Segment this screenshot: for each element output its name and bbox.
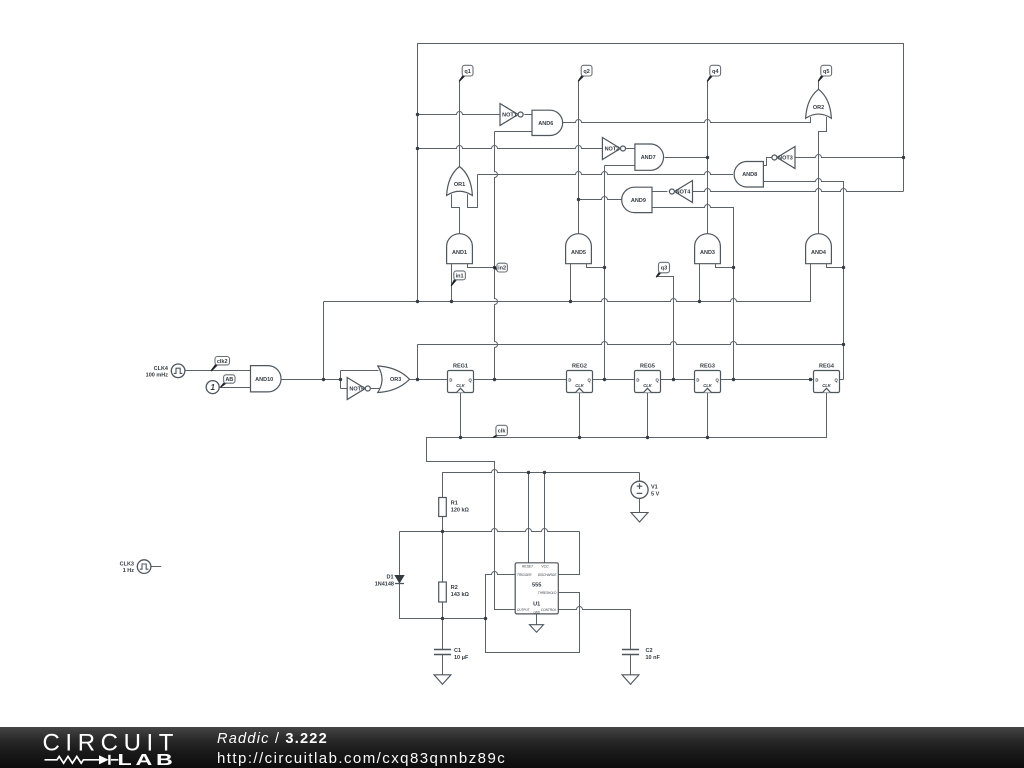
svg-text:1N4148: 1N4148 [375, 581, 394, 587]
capacitor C2 [622, 648, 661, 661]
svg-text:AND4: AND4 [811, 250, 827, 256]
svg-text:R1: R1 [451, 500, 458, 506]
junction [603, 266, 606, 269]
svg-text:TRIGGER: TRIGGER [517, 573, 532, 577]
wire: AND6 lower input horizontal [495, 131, 533, 133]
svg-text:OR1: OR1 [454, 182, 465, 188]
gate AND4 [806, 234, 832, 264]
label AB [221, 375, 235, 387]
wire: R2 down to C1 [442, 602, 444, 650]
svg-text:AND8: AND8 [742, 172, 757, 178]
junction [732, 266, 735, 269]
svg-text:NOT2: NOT2 [605, 147, 620, 153]
junction [842, 266, 845, 269]
wire: NOT2 input [418, 146, 603, 149]
junction [493, 266, 496, 269]
label q4 [708, 65, 721, 81]
gate NOT4 [675, 181, 693, 203]
wire: TRIGGER loop to THRESHOLD [486, 572, 580, 653]
wire: q2 net riser [604, 166, 606, 380]
flip-flop REG5 [635, 363, 661, 392]
svg-text:AND9: AND9 [631, 198, 646, 204]
gate NOT2 [602, 138, 620, 160]
junction [527, 471, 530, 474]
junction [646, 436, 649, 439]
svg-text:q2: q2 [583, 69, 589, 75]
gate AND1 [447, 234, 473, 264]
ground [622, 675, 639, 685]
gate OR3 [378, 366, 410, 393]
svg-text:THRESHOLD: THRESHOLD [538, 591, 557, 595]
wire: AND3 left input riser [699, 264, 701, 302]
svg-text:OR2: OR2 [813, 105, 824, 111]
wire: AND9 lower input to REG3 Q riser [652, 205, 734, 380]
wire: NOT2 bubble to AND7 input [626, 148, 635, 150]
svg-text:in2: in2 [498, 266, 506, 272]
gate NOT5 [347, 378, 365, 400]
wire: RESET riser [528, 473, 530, 563]
svg-text:in1: in1 [456, 274, 464, 280]
gate AND9 [622, 187, 652, 212]
ground [530, 625, 544, 633]
ground [631, 513, 648, 523]
flip-flop REG3 [695, 363, 721, 392]
gate OR2 [806, 89, 832, 118]
wire: CLK4 to AND10 upper input [185, 370, 251, 372]
ground [434, 675, 451, 685]
clock source CLK3 [120, 560, 151, 574]
flip-flop REG2 [567, 363, 593, 392]
wire: D1 bottom to trigger/threshold sense wire [400, 584, 486, 619]
junction [339, 378, 342, 381]
svg-text:OR3: OR3 [390, 377, 401, 383]
junction [484, 617, 487, 620]
svg-text:100 mHz: 100 mHz [146, 373, 169, 379]
clock source CLK4 [146, 364, 185, 379]
wire: AND5 right input jog [587, 264, 605, 268]
wire: REG1 Q to REG2 D [474, 379, 567, 381]
wire: REG3 Q to REG4 D [721, 379, 814, 381]
wire: OR1 right input jog up to AND8 output rail [468, 175, 478, 208]
wire: NOT4 input from right edge [693, 189, 904, 192]
resistor R1 [439, 498, 470, 517]
wire: OR2 right input to AND4 output riser [819, 117, 827, 236]
svg-text:10 nF: 10 nF [646, 655, 661, 661]
junction [416, 300, 419, 303]
junction [416, 113, 419, 116]
label q1 [460, 65, 474, 81]
wire: NOT5/OR3 branch vertical [340, 371, 342, 389]
wire: AND7 output to q4 riser [665, 157, 708, 159]
svg-text:clk: clk [498, 429, 507, 435]
svg-text:NOT1: NOT1 [502, 113, 517, 119]
junction [441, 617, 444, 620]
svg-text:OUTPUT: OUTPUT [517, 608, 530, 612]
wire: q4 label riser down to AND3 tip [707, 81, 709, 234]
junction [603, 378, 606, 381]
wire: rail2 (R1/R2 junction, D1, discharge) [400, 529, 580, 532]
svg-text:q3: q3 [661, 266, 667, 272]
wire: branch to NOT5 input [341, 388, 348, 390]
wire: NOT5 bubble to OR3 lower input [371, 388, 381, 390]
junction [416, 147, 419, 150]
junction [569, 300, 572, 303]
svg-text:REG2: REG2 [572, 363, 587, 369]
wire: NOT1 input [418, 112, 501, 115]
diode D1 [375, 574, 404, 587]
svg-text:AND6: AND6 [538, 121, 553, 127]
svg-text:CLK: CLK [822, 383, 832, 388]
junction [672, 378, 675, 381]
gate AND10 [251, 366, 282, 392]
svg-text:D: D [449, 377, 452, 382]
junction [809, 378, 812, 381]
wire: ring feedback bus B (REG4 Q to REG1 D) [418, 342, 844, 345]
svg-text:AB: AB [225, 377, 233, 383]
svg-text:CLK: CLK [703, 383, 713, 388]
gate AND3 [695, 234, 721, 264]
svg-text:REG3: REG3 [700, 363, 715, 369]
wire: AND7 lower input to q2 net riser [605, 165, 635, 167]
flip-flop REG4 [814, 363, 840, 392]
wire: AND10 output [281, 379, 341, 381]
svg-text:q5: q5 [823, 69, 829, 75]
wire: REG5 Q to REG3 D [661, 379, 695, 381]
wire: AND9 upper input to NOT4 bubble [652, 191, 667, 193]
wire: right edge vertical of input net [903, 43, 905, 191]
svg-text:AND3: AND3 [700, 250, 715, 256]
svg-text:AND10: AND10 [255, 377, 273, 383]
wire: REG3 clk riser [707, 393, 709, 438]
wire: R1 to R2 through rail2 [442, 517, 444, 582]
svg-text:1 Hz: 1 Hz [123, 568, 135, 574]
wire: bus A left riser down to AND10 output wire [323, 302, 325, 380]
svg-text:REG1: REG1 [453, 363, 468, 369]
svg-text:R2: R2 [451, 585, 458, 591]
wire: q1 riser from AND6 lower input down to REG1 Q [495, 132, 498, 380]
junction [578, 436, 581, 439]
gate AND7 [635, 144, 664, 170]
wire: REG1 clk riser [460, 393, 462, 438]
resistor R2 [439, 582, 470, 602]
junction [441, 530, 444, 533]
wire: V1 top to rail [639, 473, 641, 482]
wire: bus A right end riser to AND4 input [810, 264, 812, 302]
wire: CLK3 stub [152, 566, 162, 568]
svg-text:143 kΩ: 143 kΩ [451, 592, 470, 598]
svg-text:RESET: RESET [522, 565, 534, 569]
wire: bus B left riser down to REG1 D wire [417, 344, 419, 379]
svg-text:CLK4: CLK4 [154, 366, 169, 372]
junction [902, 156, 905, 159]
svg-text:CLK: CLK [575, 383, 585, 388]
svg-text:LAB: LAB [117, 752, 176, 768]
gate AND8 [734, 162, 763, 188]
wire: REG5 clk riser [647, 393, 649, 438]
wire: C2 to ground [630, 655, 632, 675]
wire: CONTROL to C2 [558, 607, 630, 650]
svg-text:C2: C2 [646, 648, 653, 654]
wire: rail2 left riser to D1 [399, 532, 401, 575]
junction [706, 156, 709, 159]
svg-text:NOT4: NOT4 [676, 190, 692, 196]
wire: AND9 output to q2 riser [579, 197, 622, 200]
wire: OR3 output to REG1 D [410, 379, 448, 381]
wire: AND1 left input riser (in1) [451, 264, 453, 302]
svg-text:1: 1 [210, 383, 215, 392]
svg-text:CLK: CLK [456, 383, 466, 388]
wire: AND6 output to OR2 left input [563, 117, 811, 123]
svg-text:q1: q1 [464, 69, 470, 75]
voltage source V1 [631, 481, 660, 498]
wire: NOT3 input to right edge [795, 155, 904, 158]
gate OR1 [447, 167, 473, 196]
digital constant 1 (AB) [206, 381, 219, 394]
svg-text:D: D [568, 377, 571, 382]
wire: VCC rail1 [443, 470, 640, 498]
wire: branch to OR3 upper input [341, 370, 379, 372]
gate AND6 [532, 110, 563, 135]
junction [577, 198, 580, 201]
label q5 [819, 65, 832, 81]
flip-flop REG1 [448, 363, 474, 392]
wire: q2 label riser down to AND5 tip [578, 81, 580, 234]
junction [416, 378, 419, 381]
wire: REG2 Q to REG5 D [593, 379, 635, 381]
wire: feedback bus A of input net [323, 299, 810, 302]
wire: NOT3 output to AND8 upper input [763, 158, 772, 166]
svg-text:REG4: REG4 [819, 363, 835, 369]
svg-text:D: D [815, 377, 818, 382]
svg-text:GND: GND [533, 610, 540, 614]
junction [706, 436, 709, 439]
wire: q5 label to OR2 tip [818, 81, 820, 90]
label in1 [452, 271, 466, 285]
svg-text:CLK3: CLK3 [120, 561, 134, 567]
svg-text:120 kΩ: 120 kΩ [451, 507, 470, 513]
wire: AND4 right input jog [827, 264, 844, 268]
wire: V1 bottom to ground [639, 498, 641, 512]
capacitor C1 [434, 648, 469, 661]
wire: AND3 right input jog [716, 264, 734, 268]
svg-text:D: D [696, 377, 699, 382]
svg-text:U1: U1 [533, 601, 540, 607]
wire: AND8 output rail to OR1 [478, 172, 734, 175]
svg-text:AND5: AND5 [571, 250, 586, 256]
wire: AND1 right input jog (in2) [468, 264, 495, 268]
555 timer U1 [515, 563, 558, 615]
wire: VCC riser [544, 473, 546, 563]
label clk [493, 425, 507, 437]
svg-text:AND7: AND7 [641, 155, 656, 161]
wire: NOT1 bubble to AND6 upper input [524, 114, 532, 116]
svg-text:CONTROL: CONTROL [541, 608, 557, 612]
junction [698, 300, 701, 303]
label clk2 [211, 357, 229, 371]
gate AND5 [566, 234, 592, 264]
wire: left edge vertical of input net [417, 43, 419, 302]
wire: q3 label jog to REG5 Q riser [657, 277, 674, 380]
junction [732, 378, 735, 381]
wire: REG2 clk riser [579, 393, 581, 438]
junction [493, 378, 496, 381]
svg-text:AND1: AND1 [452, 250, 467, 256]
wire: C1 to ground [442, 655, 444, 675]
junction [842, 343, 845, 346]
svg-text:5 V: 5 V [651, 491, 660, 497]
wire: AND5 left input riser [570, 264, 572, 302]
svg-text:NOT3: NOT3 [778, 156, 793, 162]
svg-text:clk2: clk2 [217, 359, 228, 365]
svg-text:D: D [636, 377, 639, 382]
wire: clk bus under registers [427, 393, 827, 610]
junction [450, 300, 453, 303]
label q2 [579, 65, 593, 81]
svg-text:V1: V1 [651, 484, 658, 490]
svg-text:REG5: REG5 [640, 363, 655, 369]
wire: q1 label to OR1 tip [459, 81, 461, 167]
wire: 555 GND pin [536, 614, 538, 625]
svg-text:D1: D1 [386, 574, 393, 580]
wire: REG4 Q to riser [839, 379, 843, 381]
svg-text:555: 555 [532, 583, 541, 589]
gate NOT3 [777, 147, 795, 169]
svg-text:VCC: VCC [541, 565, 549, 569]
junction [459, 436, 462, 439]
wire: constant 1 to AND10 lower input [219, 387, 251, 389]
wire: AND8 lower input / REG4 Q net [763, 179, 843, 380]
svg-text:C1: C1 [454, 648, 461, 654]
junction [322, 378, 325, 381]
svg-text:q4: q4 [712, 69, 719, 75]
svg-text:NOT5: NOT5 [349, 387, 364, 393]
svg-text:DISCHARGE: DISCHARGE [538, 573, 557, 577]
svg-text:CLK: CLK [643, 383, 653, 388]
gate NOT1 [500, 104, 518, 126]
wire: OR1 left input jog to AND1 output [452, 194, 460, 234]
junction [543, 471, 546, 474]
label q3 [657, 262, 670, 277]
wire: top bus of input net [417, 43, 904, 45]
label in2 [495, 263, 508, 272]
svg-text:10 μF: 10 μF [454, 655, 469, 661]
wire: rail2 right riser to DISCHARGE pin [558, 532, 579, 575]
